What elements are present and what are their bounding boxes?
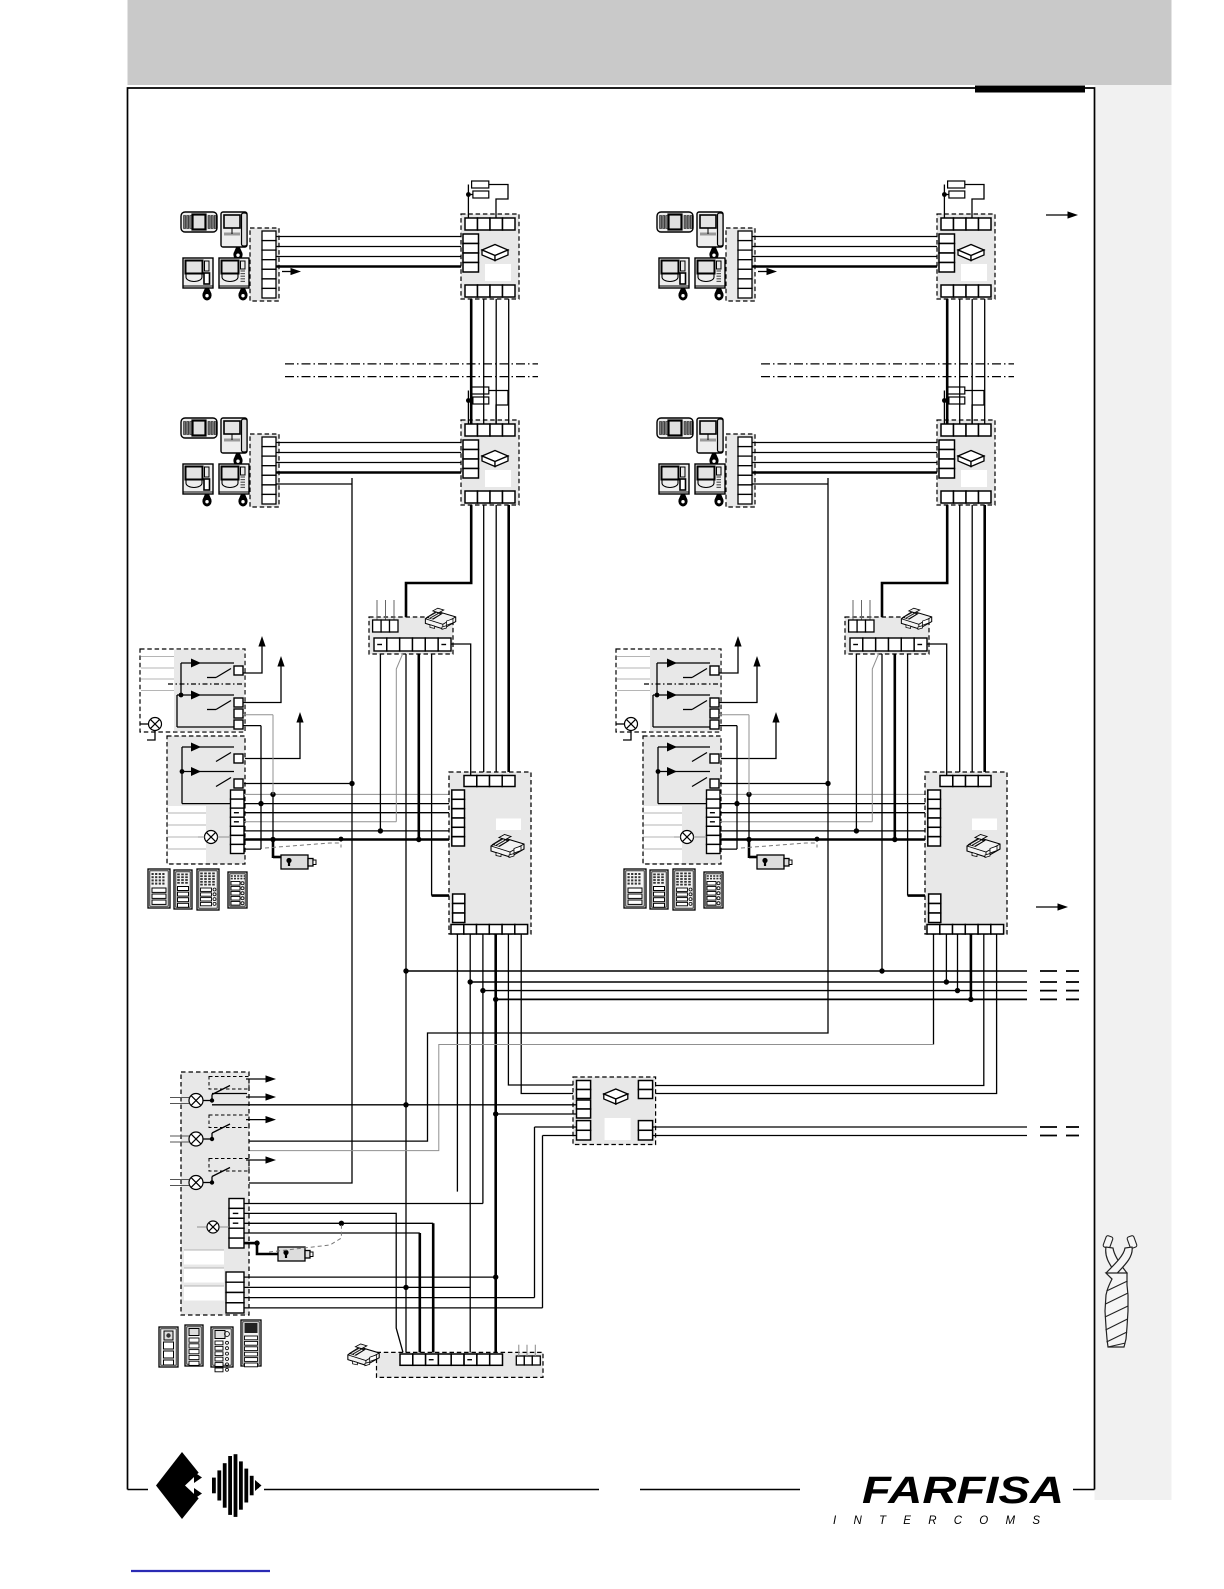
svg-text:FARFISA: FARFISA <box>862 1470 1064 1512</box>
svg-text:INTERCOMS: INTERCOMS <box>833 1515 1047 1527</box>
